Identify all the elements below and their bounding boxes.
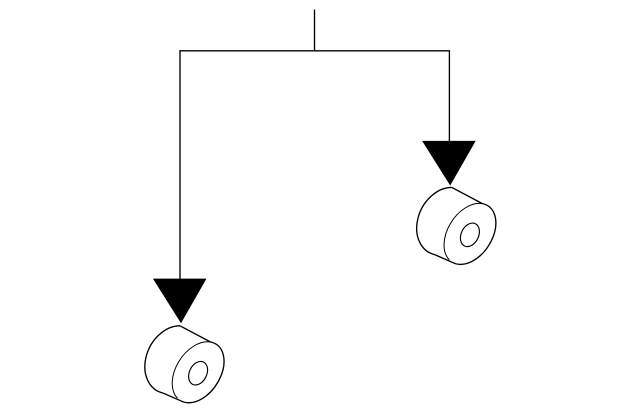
bushing: left part	[145, 326, 224, 403]
arrow: left pointer	[153, 279, 207, 324]
arrow: right pointer	[422, 141, 476, 186]
wire: right vertical drop	[448, 51, 450, 141]
wire: top vertical lead-in	[314, 10, 316, 51]
wire: horizontal branch bar	[179, 50, 450, 52]
wire: left vertical drop	[179, 51, 181, 279]
bushing: right part	[417, 187, 496, 264]
